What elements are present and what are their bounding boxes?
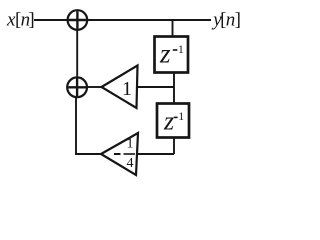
gain G2 triangle [101, 133, 138, 175]
adder A1 [68, 10, 88, 30]
svg-text:y[n]: y[n] [211, 10, 241, 31]
delay block Z1 [155, 37, 189, 73]
gain G1 triangle [102, 66, 138, 109]
wire branch to gain G1 base [138, 86, 174, 88]
wire gain G2 tip to left corner [75, 153, 101, 155]
svg-text:z: z [159, 39, 171, 69]
svg-text:1: 1 [178, 44, 184, 56]
delay block Z2 [157, 104, 189, 138]
wire junction down to delay Z1 [172, 20, 174, 37]
wire bottom to gain G2 base [137, 153, 174, 155]
wire delay Z2 down [173, 138, 175, 155]
label fraction bar of G2 [124, 153, 136, 155]
adder A2 [67, 77, 87, 97]
wire delay Z1 down to delay Z2 [173, 73, 175, 104]
wire adder A1 to y[n] [87, 19, 211, 21]
wire up to adder A2 [75, 97, 77, 155]
svg-text:z: z [163, 107, 174, 136]
wire adder A2 up to adder A1 [76, 30, 78, 77]
wire x[n] to adder A1 [34, 19, 68, 21]
label minus sign of G2 [114, 153, 121, 155]
svg-text:1: 1 [178, 111, 184, 123]
svg-text:1: 1 [127, 137, 134, 152]
wire gain G1 tip to adder A2 [87, 86, 102, 88]
svg-text:x[n]: x[n] [6, 10, 35, 31]
svg-text:1: 1 [122, 78, 132, 100]
svg-text:4: 4 [127, 156, 134, 171]
